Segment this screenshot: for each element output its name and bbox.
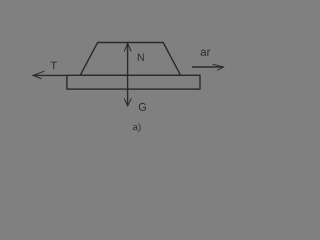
ground plank rectangle [67, 75, 200, 89]
G arrowhead (down) [124, 99, 131, 106]
wire T arrow shaft [33, 74, 67, 76]
N arrowhead (up) [125, 43, 131, 51]
label ar [201, 50, 211, 56]
N-G vertical line [127, 43, 129, 106]
label G [139, 103, 146, 111]
T arrowhead (left) [33, 71, 44, 78]
ar arrow shaft [192, 66, 224, 68]
label a) [133, 123, 140, 132]
ar arrowhead (right) [213, 64, 224, 70]
label T [51, 62, 57, 70]
label N [138, 54, 144, 61]
block trapezoid [80, 43, 180, 76]
